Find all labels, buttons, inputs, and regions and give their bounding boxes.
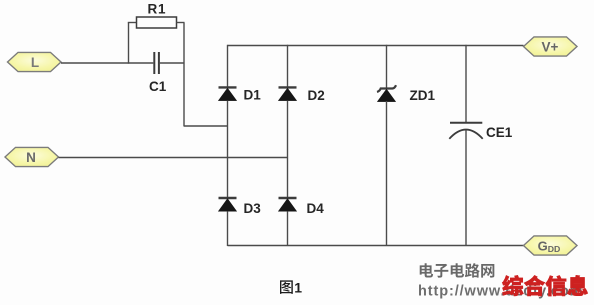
diode D3 <box>219 198 237 211</box>
wire V+ top rail <box>228 45 524 47</box>
watermark red 综合信息 <box>502 275 587 296</box>
wire R1 left vertical <box>128 23 130 64</box>
svg-text:C1: C1 <box>149 79 167 94</box>
svg-text:D2: D2 <box>308 88 325 103</box>
watermark site name 电子电路网 <box>420 263 495 278</box>
wire D2 branch upper <box>287 45 289 88</box>
svg-text:CE1: CE1 <box>486 125 513 140</box>
svg-text:D3: D3 <box>244 201 262 216</box>
wire ZD1 branch upper <box>386 45 388 89</box>
diode D4 <box>279 198 297 211</box>
wire L-branch into bridge node <box>184 125 228 127</box>
svg-text:V+: V+ <box>542 40 559 55</box>
wire ZD1 to bottom rail <box>386 101 388 246</box>
svg-text:1: 1 <box>294 280 302 296</box>
wire CE1 branch upper <box>465 45 467 123</box>
svg-text:D4: D4 <box>307 201 325 216</box>
zener diode ZD1 <box>377 85 396 101</box>
wire D4 to bottom rail <box>287 211 289 246</box>
diode D1 <box>219 87 237 100</box>
port flag N <box>5 147 59 166</box>
svg-text:R1: R1 <box>148 2 167 17</box>
wire D2 to D4 <box>287 101 289 198</box>
svg-text:L: L <box>31 55 39 70</box>
svg-text:D1: D1 <box>244 88 262 103</box>
svg-text:ZD1: ZD1 <box>410 88 436 103</box>
wire R1/C1 right vertical <box>183 23 185 127</box>
wire C1 to right vertical <box>160 62 184 64</box>
capacitor C1 <box>154 52 159 74</box>
wire D1 to D3 <box>227 101 229 198</box>
svg-text:N: N <box>26 150 36 165</box>
diode D2 <box>279 87 297 100</box>
wire N to bridge <box>59 157 288 159</box>
capacitor CE1 (polarized) <box>449 123 482 139</box>
port flag GDD <box>524 236 578 255</box>
wire ground bottom rail <box>228 245 524 247</box>
caption 图1 <box>280 280 302 296</box>
resistor R1 <box>137 17 177 28</box>
wire CE1 to bottom rail <box>465 130 467 246</box>
wire D1 branch upper <box>227 45 229 88</box>
wire L to C1 <box>61 62 153 64</box>
wire R1 left lead <box>128 22 137 24</box>
wire D3 to bottom rail <box>227 211 229 246</box>
port flag V+ <box>524 37 578 56</box>
port flag L <box>8 52 62 71</box>
wire R1 right lead <box>177 22 185 24</box>
